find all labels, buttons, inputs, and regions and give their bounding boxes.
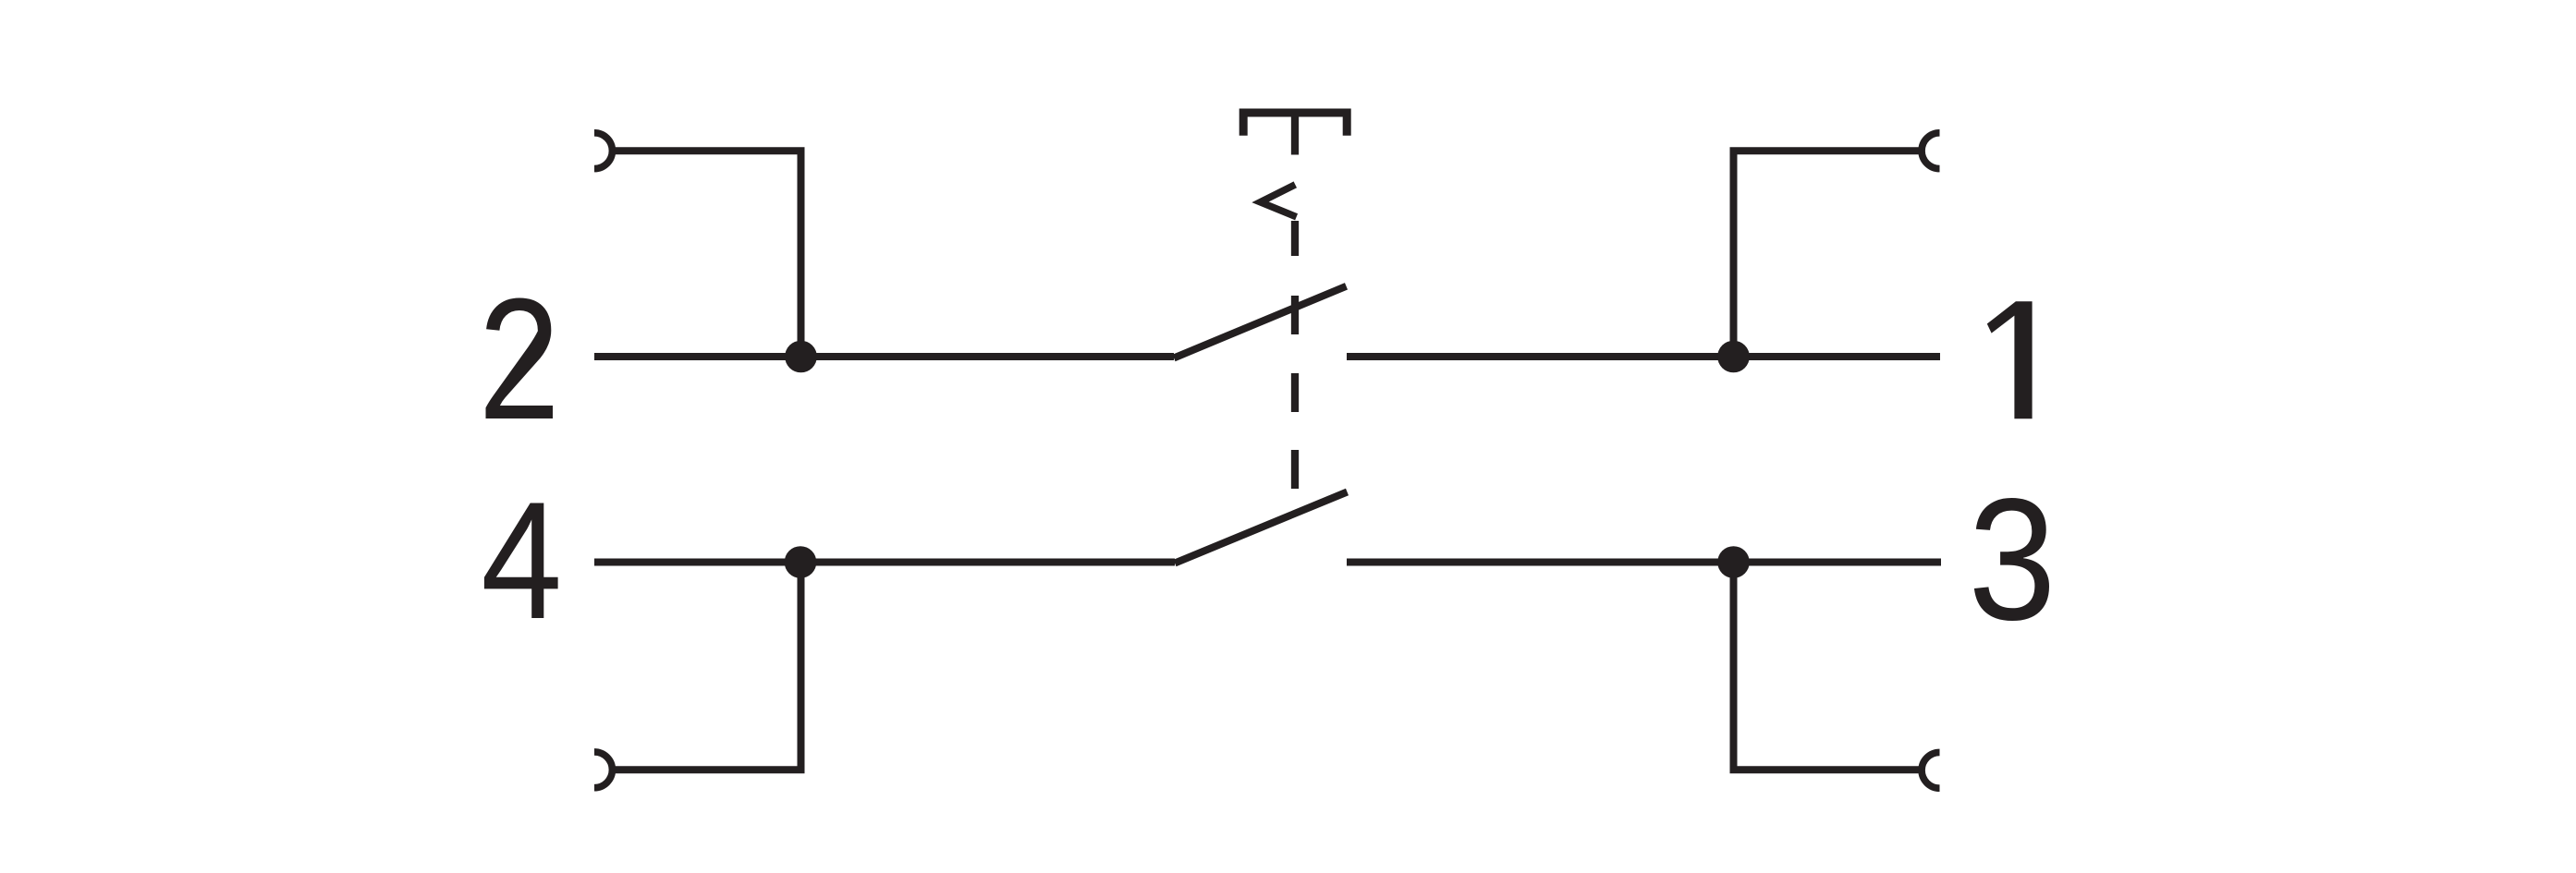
- actuator: spring-return chevron: [1261, 185, 1297, 217]
- terminal 4 connector arc (bottom-left): [594, 752, 612, 788]
- wire 1: right horizontal: [1347, 353, 1940, 360]
- mechanical linkage: dashed coupling line: [1291, 221, 1299, 489]
- wire: bottom-left vertical drop: [798, 563, 805, 770]
- switch contact arm (upper pole 2-1): [1174, 286, 1347, 358]
- wire: bottom-right vertical drop: [1730, 563, 1738, 770]
- node: junction on wire 2: [785, 341, 817, 373]
- node: junction on wire 4: [785, 546, 817, 578]
- actuator: stem: [1291, 116, 1299, 155]
- wire: bottom-right horizontal stub: [1730, 766, 1923, 773]
- wire: bottom-left horizontal stub: [612, 766, 805, 773]
- wire: top-right vertical rise: [1730, 151, 1738, 357]
- switch contact arm (lower pole 4-3): [1175, 492, 1348, 564]
- terminal 1 connector arc (top-right): [1922, 133, 1939, 169]
- actuator: push-button bracket: [1243, 113, 1347, 136]
- wire: top-left vertical drop: [798, 151, 805, 357]
- terminal 3 connector arc (bottom-right): [1922, 752, 1939, 788]
- terminal 2 connector arc (top-left): [594, 133, 612, 169]
- wire: top-right horizontal stub: [1730, 147, 1923, 154]
- node: junction on wire 3: [1717, 546, 1750, 578]
- wire 3: right horizontal: [1347, 559, 1941, 566]
- wire: top-left horizontal stub: [612, 147, 805, 154]
- wire 4: left horizontal: [594, 559, 1175, 566]
- wire 2: left horizontal: [594, 353, 1174, 360]
- label pin 1: [1987, 301, 2033, 418]
- node: junction on wire 1: [1717, 341, 1750, 373]
- label pin 3: [1974, 498, 2049, 621]
- label pin 4: [484, 503, 558, 619]
- label pin 2: [486, 298, 554, 419]
